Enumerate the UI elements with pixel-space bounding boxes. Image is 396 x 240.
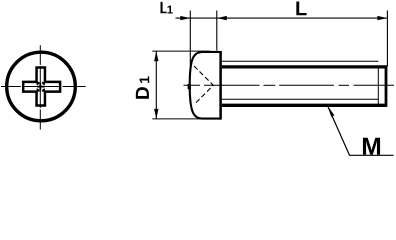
shank top outline (thick) <box>222 65 386 68</box>
D1 dimension line (vertical) <box>155 51 157 119</box>
arrow L right (pointing right) <box>377 16 387 20</box>
end face <box>385 65 388 107</box>
label L <box>296 1 306 15</box>
D1 arrow down <box>154 109 158 119</box>
M leader line <box>328 106 394 155</box>
D1 extension line top <box>152 50 210 52</box>
label L1 <box>161 2 167 13</box>
phillips recess inner corner fillets <box>37 82 45 92</box>
arrow L1 right / L left (pointing left) <box>217 16 227 20</box>
D1 arrow up <box>154 51 158 61</box>
shank bottom outline (thick) <box>222 104 386 107</box>
label D1 (rotated) <box>136 76 149 98</box>
screw head front view: outer circle <box>7 52 76 121</box>
shank thread line top (thin) <box>222 60 378 62</box>
vertical centerline (front view) <box>39 45 41 129</box>
head right face <box>219 51 222 120</box>
extension line at head apex <box>189 11 191 66</box>
extension line at screw tip <box>386 11 388 67</box>
D1 extension line bottom <box>152 118 210 120</box>
extension line at head/shank junction <box>216 11 218 51</box>
arrow L1 left (pointing right) <box>180 16 190 20</box>
center mark <box>37 83 45 91</box>
horizontal centerline (front view) <box>1 86 86 88</box>
side view: pan head outline (dome) <box>190 52 221 119</box>
recess notch on head face <box>188 84 191 89</box>
side view centerline (dash-dot) <box>184 84 395 86</box>
M leader arrowhead <box>328 106 335 117</box>
shank thread line bottom (thin) <box>222 98 378 100</box>
dimension line (top, shared by L1 and L) <box>176 17 388 19</box>
phillips cross recess outline <box>23 68 60 106</box>
chamfer line (thin vertical) <box>377 66 379 106</box>
label M <box>363 138 380 155</box>
hidden recess cone (dashed V) <box>194 66 213 105</box>
